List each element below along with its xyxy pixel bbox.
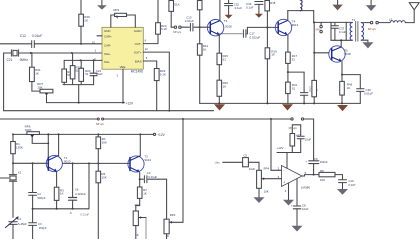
- resistor R31 51: [286, 71, 305, 103]
- +12V supply to pin 6: [277, 146, 301, 168]
- resistor R30: [312, 80, 317, 103]
- svg-text:+C7: +C7: [296, 133, 302, 137]
- svg-text:0.1uF: 0.1uF: [246, 6, 254, 10]
- capacitor C32 0.1uF bypass: [225, 0, 243, 19]
- wire T4 base: [247, 26, 278, 28]
- resistor R15 51: [217, 35, 228, 80]
- wire: secondary output with test points: [361, 21, 390, 31]
- svg-text:R8: R8: [320, 169, 324, 173]
- resistor R18 top: [265, 1, 276, 28]
- capacitor C7 gain: [290, 125, 311, 153]
- svg-text:МГц/s: МГц/s: [289, 126, 298, 130]
- svg-text:CAR+: CAR+: [104, 34, 112, 38]
- svg-text:RP3: RP3: [113, 8, 119, 12]
- resistor R4 10K: [96, 134, 107, 171]
- pin numbers left: [92, 41, 97, 62]
- svg-text:1K: 1K: [203, 47, 207, 51]
- wiper loop RP6 to T1 base: [32, 133, 49, 157]
- svg-text:0.1uF: 0.1uF: [235, 6, 243, 10]
- capacitor C13 0.01uF: [185, 16, 211, 31]
- svg-text:C21: C21: [7, 58, 13, 62]
- svg-text:C12: C12: [20, 34, 26, 38]
- svg-text:C5: C5: [243, 153, 247, 157]
- svg-text:RP2: RP2: [170, 213, 176, 217]
- ground symbol under R31: [282, 104, 293, 110]
- svg-text:10uF: 10uF: [249, 167, 256, 171]
- transistor T4 9013: [275, 19, 298, 35]
- ground top near tank: [332, 0, 342, 10]
- crystal X1: [0, 163, 22, 217]
- capacitor C6 0.022uF: [69, 163, 90, 216]
- svg-text:0.01uF: 0.01uF: [32, 34, 43, 38]
- svg-text:LM386: LM386: [301, 186, 311, 190]
- wire to tank with vertical test points: [314, 22, 331, 32]
- ground under secondary: [361, 40, 373, 48]
- svg-text:1K: 1K: [60, 192, 64, 196]
- resistor R17 51 emitter: [286, 35, 298, 72]
- IC U1 MC1496: [102, 27, 143, 77]
- resistor R14 top: [197, 1, 202, 28]
- resistor R16 1K: [217, 80, 228, 103]
- resistor R5 10K: [96, 171, 107, 239]
- capacitor C36 0.01uF: [342, 75, 373, 104]
- svg-text:51: 51: [85, 72, 89, 76]
- svg-text:5.1K: 5.1K: [161, 27, 167, 31]
- crystal C21 9MHz: [7, 50, 29, 62]
- transistor T2 9013: [128, 134, 151, 172]
- potentiometer RP4 10K: [257, 167, 282, 198]
- ground symbol under T3 chain: [214, 104, 225, 110]
- svg-text:OUT-: OUT-: [135, 42, 142, 46]
- svg-text:51K: 51K: [174, 2, 179, 6]
- svg-text:SIG+: SIG+: [104, 52, 111, 56]
- transistor T1 9013: [46, 133, 71, 172]
- test point circles on signal bus: [96, 118, 104, 126]
- svg-text:1K: 1K: [166, 234, 170, 238]
- svg-text:12: 12: [145, 47, 149, 51]
- RF choke above T4: [288, 0, 314, 20]
- potentiometer RP1: [133, 203, 146, 239]
- wire: carrier bus L1: [4, 110, 214, 112]
- svg-text:1K: 1K: [135, 233, 139, 237]
- potentiometer RP7 10K: [32, 82, 53, 103]
- svg-text:130K: 130K: [16, 145, 23, 149]
- svg-text:+: +: [283, 180, 285, 184]
- svg-text:500pF: 500pF: [38, 196, 46, 200]
- ground rail of amplifier stages: [200, 102, 361, 104]
- svg-text:+: +: [305, 159, 307, 163]
- capacitor C37 tank: [331, 22, 347, 40]
- svg-text:1K: 1K: [347, 86, 351, 90]
- resistor R19 1K: [265, 27, 277, 103]
- svg-text:T3: T3: [224, 19, 228, 23]
- svg-text:GADJ: GADJ: [134, 29, 142, 33]
- svg-text:OUT+: OUT+: [134, 51, 142, 55]
- capacitor C9 100uF output: [305, 119, 327, 176]
- wire: resistor group bottom rail: [63, 85, 94, 103]
- svg-text:C6: C6: [75, 187, 79, 191]
- potentiometer RP3 gain adjust: [111, 8, 136, 27]
- resistor R21 1K: [30, 53, 42, 82]
- inductor L2: [389, 18, 414, 23]
- capacitor C3 150pF: [29, 209, 47, 239]
- ground above chip: [97, 0, 107, 10]
- svg-text:0.01uF: 0.01uF: [80, 212, 89, 216]
- input label Uin: [215, 161, 221, 165]
- svg-text:9018: 9018: [344, 52, 351, 56]
- capacitor C33 0.1uF bypass: [246, 2, 263, 18]
- wire feedback drop: [88, 163, 90, 208]
- ground under T5 stage: [337, 105, 348, 111]
- svg-text:MC1496: MC1496: [131, 70, 143, 74]
- svg-text:10K: 10K: [37, 85, 42, 89]
- svg-text:100uF: 100uF: [320, 160, 328, 164]
- svg-text:150pF: 150pF: [39, 226, 47, 230]
- wire T1 to T2 coupling: [62, 162, 130, 164]
- svg-text:+12V: +12V: [157, 133, 165, 137]
- svg-text:C1: C1: [18, 217, 22, 221]
- svg-text:GND: GND: [104, 29, 110, 33]
- capacitor C17 0.022uF coupling: [219, 27, 260, 39]
- svg-text:1K: 1K: [271, 53, 275, 57]
- svg-text:Uвх: Uвх: [215, 161, 221, 165]
- svg-text:1K: 1K: [35, 72, 39, 76]
- wire SIG- row: [64, 59, 102, 61]
- svg-text:0.022uF: 0.022uF: [75, 192, 86, 196]
- resistor R13 51K: [169, 1, 180, 28]
- svg-text:10K: 10K: [264, 190, 269, 194]
- capacitor C4 0.01uF: [140, 171, 167, 219]
- transformer T1: [346, 18, 363, 41]
- svg-text:X1: X1: [18, 171, 22, 175]
- svg-text:9013: 9013: [292, 23, 299, 27]
- svg-text:SIG-: SIG-: [104, 60, 110, 64]
- wire inverting input from bus: [271, 119, 282, 170]
- capacitor C24 10uF: [90, 60, 103, 84]
- transistor T3 9018: [207, 0, 232, 36]
- ground under RP4: [254, 197, 265, 203]
- wire: tank feed vertical: [313, 11, 315, 81]
- test point circles near op-amp: [289, 118, 304, 130]
- potentiometer RP2: [164, 213, 183, 239]
- resistor R24b 5.1K: [143, 0, 167, 44]
- svg-text:9.1K: 9.1K: [160, 72, 166, 76]
- test point circles on carrier line: [173, 26, 189, 34]
- svg-text:10K: 10K: [102, 175, 107, 179]
- op-amp U2 LM386: [278, 166, 311, 194]
- variable capacitor C1: [6, 216, 28, 239]
- svg-text:RP4: RP4: [264, 167, 270, 171]
- svg-text:1K: 1K: [223, 85, 227, 89]
- ground under C10: [337, 189, 348, 195]
- chip pin stub CAR+: [97, 35, 102, 37]
- capacitor C5 10uF input: [223, 153, 259, 171]
- svg-text:0.047: 0.047: [348, 183, 355, 187]
- svg-text:10K: 10K: [102, 141, 107, 145]
- resistor R26 2K: [79, 0, 90, 45]
- resistor R24 51: [79, 60, 91, 84]
- svg-text:9013: 9013: [145, 158, 152, 162]
- antenna: [409, 3, 419, 23]
- wire: signal bus to LM386: [0, 118, 314, 120]
- svg-text:9MHz: 9MHz: [20, 58, 29, 62]
- wire output drop to RP2: [182, 119, 184, 222]
- svg-text:МГц/s: МГц/s: [173, 30, 181, 34]
- svg-text:0.022uF: 0.022uF: [250, 35, 261, 39]
- svg-text:51: 51: [223, 58, 227, 62]
- svg-text:МГц/s: МГц/s: [368, 27, 376, 31]
- svg-text:0.01uF: 0.01uF: [185, 19, 194, 23]
- svg-text:100K: 100K: [25, 128, 32, 132]
- supply rail of oscillator +12V: [12, 133, 166, 137]
- resistor R45 1K emitter: [340, 62, 353, 105]
- svg-text:0.1uF: 0.1uF: [339, 30, 347, 34]
- ground pin 4: [283, 183, 294, 206]
- svg-text:МГц/s: МГц/s: [96, 122, 104, 126]
- resistor R8 10K output: [319, 169, 343, 182]
- resistor R7 1K emitter T2: [136, 172, 147, 211]
- capacitor C2 500pF: [29, 163, 46, 209]
- svg-text:10: 10: [92, 41, 96, 45]
- capacitor C10 0.047: [339, 179, 356, 189]
- svg-text:2K: 2K: [84, 19, 88, 23]
- transistor T5 9018: [314, 39, 351, 62]
- resistor R12 1K: [197, 27, 208, 103]
- svg-text:10uF: 10uF: [302, 207, 309, 211]
- wire: VEE supply row +12V: [47, 69, 135, 105]
- pin numbers right: [145, 38, 149, 60]
- resistor R23 51: [70, 53, 81, 85]
- resistor R23b 9.1K on BIAS: [143, 61, 166, 111]
- capacitor C34 0.01uF: [300, 72, 318, 103]
- svg-text:+12V: +12V: [126, 101, 134, 105]
- svg-text:51: 51: [292, 57, 296, 61]
- wire: crystal row to chip SIG+: [4, 52, 102, 54]
- svg-text:0.01uF: 0.01uF: [364, 92, 373, 96]
- svg-text:A: A: [70, 211, 72, 215]
- svg-text:R18: R18: [270, 1, 276, 5]
- potentiometer RP6 100K: [25, 125, 40, 138]
- resistor R22 51: [62, 60, 73, 84]
- svg-text:МГц: МГц: [316, 28, 322, 32]
- capacitor C12 0.01uF: [20, 34, 43, 48]
- svg-text:10uF: 10uF: [96, 72, 103, 76]
- svg-text:VEE: VEE: [120, 65, 126, 69]
- svg-text:+12V: +12V: [277, 146, 284, 150]
- resistor R3 1K emitter T1: [54, 172, 64, 209]
- svg-text:51: 51: [292, 87, 296, 91]
- svg-text:1K: 1K: [143, 192, 147, 196]
- resistor R1 130K: [11, 134, 23, 163]
- wire: C12 top row to chip CAR-: [0, 44, 102, 111]
- wire node A row: [32, 208, 89, 215]
- svg-text:-: -: [283, 169, 284, 173]
- ground under C8: [292, 226, 303, 232]
- svg-text:10K: 10K: [320, 178, 325, 182]
- wire: OUT pin 12 drop: [143, 52, 170, 112]
- svg-text:10uF: 10uF: [305, 138, 312, 142]
- svg-text:RP1: RP1: [135, 203, 141, 207]
- capacitor C8 10uF bypass: [291, 179, 309, 226]
- svg-text:CAR-: CAR-: [104, 43, 111, 47]
- ground top right: [366, 0, 377, 11]
- svg-text:5-45pF: 5-45pF: [18, 222, 27, 226]
- svg-text:C9: C9: [314, 157, 318, 161]
- wire output row: [302, 175, 319, 176]
- svg-text:T1: T1: [352, 18, 356, 22]
- svg-text:9018: 9018: [225, 24, 232, 28]
- svg-text:BIAS: BIAS: [135, 60, 142, 64]
- wire T1 base row: [12, 162, 48, 164]
- svg-text:0.01uF: 0.01uF: [148, 175, 157, 179]
